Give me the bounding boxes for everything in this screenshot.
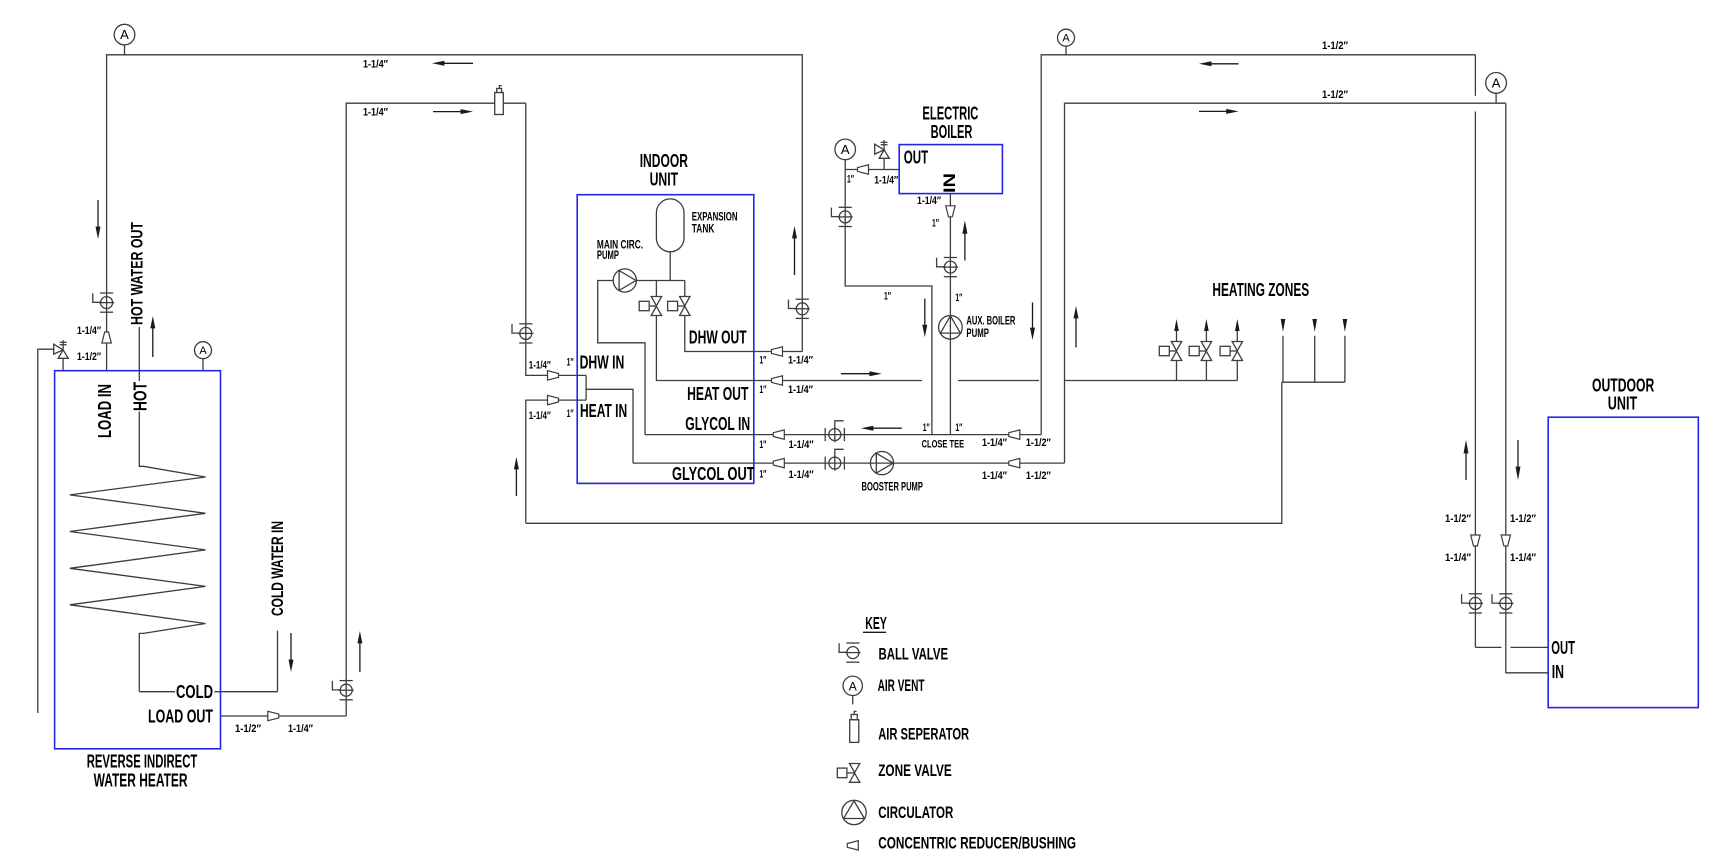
svg-text:HOT WATER OUT: HOT WATER OUT bbox=[128, 222, 147, 325]
svg-text:LOAD OUT: LOAD OUT bbox=[148, 706, 213, 726]
wire jog between DHW IN and HEAT IN bbox=[585, 375, 587, 400]
wire load-out riser and air-separator header bbox=[346, 103, 526, 716]
svg-text:1-1/2″: 1-1/2″ bbox=[1445, 513, 1472, 525]
wire boiler OUT drop to close tee bbox=[845, 160, 932, 435]
svg-text:DHW OUT: DHW OUT bbox=[689, 328, 747, 348]
flow arrow up zone 2 supply bbox=[1204, 319, 1209, 331]
wire zones return manifold bbox=[1282, 381, 1345, 383]
svg-text:1-1/2″: 1-1/2″ bbox=[1510, 513, 1537, 525]
flow arrow left on upper right header bbox=[1199, 61, 1239, 66]
reverse indirect water heater tank (blue box) bbox=[55, 371, 221, 749]
wire outdoor return drop bbox=[1506, 103, 1548, 673]
flow arrow right on air-separator header bbox=[433, 109, 473, 114]
flow arrow up zone 3 supply bbox=[1235, 319, 1240, 331]
wire outdoor OUT connection right segment bbox=[1511, 646, 1549, 648]
svg-text:OUTDOOR: OUTDOOR bbox=[1592, 375, 1654, 395]
svg-text:1-1/4″: 1-1/4″ bbox=[789, 439, 815, 451]
zone valve ZV1 (indoor left) bbox=[639, 297, 661, 316]
reducer on DHW IN bbox=[548, 371, 559, 380]
flow arrow right on HEAT OUT bbox=[841, 371, 882, 376]
reducer on GLYCOL IN right bbox=[1009, 430, 1020, 439]
wire relief valve drain bbox=[38, 349, 54, 713]
wire glycol-out riser and lower right header bbox=[1065, 103, 1506, 463]
svg-text:HOT: HOT bbox=[130, 382, 150, 411]
wire outdoor OUT connection left segment bbox=[1475, 646, 1501, 648]
svg-text:1-1/4″: 1-1/4″ bbox=[529, 410, 552, 422]
svg-text:1″: 1″ bbox=[955, 292, 962, 304]
svg-text:ELECTRIC: ELECTRIC bbox=[922, 103, 978, 123]
flow arrow down on cold water in bbox=[289, 633, 294, 672]
svg-text:PUMP: PUMP bbox=[966, 326, 989, 340]
key symbol air separator bbox=[850, 711, 859, 742]
wire HEAT OUT from left zone valve bbox=[656, 316, 922, 381]
svg-text:COLD: COLD bbox=[176, 682, 213, 702]
svg-text:1-1/4″: 1-1/4″ bbox=[874, 174, 899, 186]
svg-text:HEAT IN: HEAT IN bbox=[580, 401, 627, 421]
wire hot water out stub above tank bbox=[138, 327, 140, 381]
wire cold water in drop bbox=[277, 631, 279, 692]
zone valve ZV3 (heating zone 1) bbox=[1159, 342, 1181, 361]
key symbol concentric reducer bbox=[847, 841, 858, 850]
wire zone 2 return riser bbox=[1314, 336, 1316, 383]
flow arrow down zone 3 return bbox=[1343, 319, 1348, 332]
reducer on HEAT OUT bbox=[772, 376, 783, 385]
svg-text:TANK: TANK bbox=[692, 224, 715, 236]
KEY underline bbox=[863, 631, 886, 633]
purge valve on boiler OUT bbox=[875, 140, 890, 158]
wire zones return main bbox=[526, 382, 1282, 523]
reducer on HEAT IN bbox=[548, 395, 559, 404]
wire zone 3 supply riser bbox=[1236, 361, 1238, 381]
zone valve ZV5 (heating zone 3) bbox=[1220, 342, 1242, 361]
svg-text:BOOSTER PUMP: BOOSTER PUMP bbox=[862, 482, 924, 494]
svg-text:PUMP: PUMP bbox=[597, 250, 619, 262]
svg-text:A: A bbox=[841, 142, 850, 157]
svg-text:A: A bbox=[199, 345, 207, 357]
svg-text:ZONE VALVE: ZONE VALVE bbox=[878, 762, 952, 780]
reducer on DHW OUT bbox=[772, 347, 783, 356]
flow arrow up on HEAT IN riser bbox=[514, 457, 519, 496]
svg-text:OUT: OUT bbox=[1551, 638, 1575, 658]
flow arrow down on glycol-in riser bbox=[1030, 303, 1035, 341]
wire HEAT OUT to zones supply manifold bbox=[1065, 380, 1237, 382]
svg-text:1-1/4″: 1-1/4″ bbox=[917, 195, 942, 207]
air vent A5 (outdoor header) bbox=[1486, 73, 1507, 104]
svg-text:HEAT OUT: HEAT OUT bbox=[687, 384, 748, 404]
wire HEAT OUT middle segment bbox=[958, 380, 1039, 382]
ball valve on DHW OUT riser bbox=[789, 299, 810, 318]
flow arrow up beside HOT WATER OUT bbox=[150, 316, 155, 357]
wire zone 1 supply riser bbox=[1176, 361, 1178, 381]
wire LOAD OUT bbox=[221, 715, 347, 717]
flow arrow up on load-out riser bbox=[357, 631, 362, 672]
reducer on LOAD IN 1-1/4 to 1-1/2 bbox=[102, 332, 111, 343]
svg-text:1-1/4″: 1-1/4″ bbox=[529, 360, 552, 372]
svg-text:1″: 1″ bbox=[884, 291, 891, 303]
KEY legend bbox=[837, 613, 1076, 852]
svg-text:1-1/4″: 1-1/4″ bbox=[788, 384, 814, 396]
wire zone 2 riser above valve bbox=[1205, 331, 1207, 342]
svg-text:HEATING ZONES: HEATING ZONES bbox=[1212, 280, 1309, 300]
svg-text:1-1/4″: 1-1/4″ bbox=[982, 437, 1008, 449]
svg-text:DHW IN: DHW IN bbox=[580, 352, 625, 372]
svg-text:1-1/2″: 1-1/2″ bbox=[1322, 89, 1349, 101]
wire relief valve stub to tank bbox=[62, 358, 64, 370]
svg-text:UNIT: UNIT bbox=[1608, 394, 1637, 414]
reducer on outdoor supply drop bbox=[1471, 535, 1480, 546]
svg-text:LOAD IN: LOAD IN bbox=[95, 384, 115, 438]
key symbol circulator bbox=[842, 800, 866, 824]
wire glycol-in riser and upper right header bbox=[1041, 55, 1475, 435]
zone valve ZV2 (indoor right) bbox=[668, 297, 690, 316]
svg-text:1-1/4″: 1-1/4″ bbox=[77, 325, 102, 337]
svg-text:1″: 1″ bbox=[932, 218, 939, 230]
reducer on GLYCOL OUT right bbox=[1009, 458, 1020, 467]
svg-text:UNIT: UNIT bbox=[650, 170, 679, 190]
air vent A2 (on tank) bbox=[195, 342, 212, 371]
ball valve on boiler OUT drop bbox=[831, 207, 852, 226]
wire right zone valve stub top bbox=[684, 281, 686, 297]
svg-text:CLOSE TEE: CLOSE TEE bbox=[922, 439, 965, 451]
air vent A1 (top left) bbox=[114, 24, 135, 55]
wire zone 3 riser above valve bbox=[1236, 331, 1238, 342]
flow arrow down on close tee branch bbox=[922, 299, 927, 338]
svg-text:BOILER: BOILER bbox=[931, 122, 973, 142]
svg-text:A: A bbox=[1062, 33, 1070, 45]
svg-text:A: A bbox=[1492, 76, 1501, 91]
svg-text:1″: 1″ bbox=[847, 173, 854, 185]
svg-text:COLD WATER IN: COLD WATER IN bbox=[268, 521, 287, 616]
svg-text:1-1/4″: 1-1/4″ bbox=[789, 469, 815, 481]
ball valve on GLYCOL IN bbox=[825, 421, 844, 442]
svg-text:OUT: OUT bbox=[904, 147, 928, 167]
reducer on GLYCOL OUT left bbox=[773, 458, 784, 467]
flow arrow down zone 2 return bbox=[1312, 319, 1317, 332]
wire pump discharge manifold bbox=[636, 280, 684, 282]
wire HEAT IN entry bbox=[526, 400, 586, 523]
electric boiler (blue box) bbox=[899, 145, 1002, 194]
air vent A4 (right header) bbox=[1058, 29, 1075, 55]
svg-text:1-1/4″: 1-1/4″ bbox=[1510, 552, 1537, 564]
expansion tank bbox=[656, 199, 684, 252]
relief valve on tank bbox=[54, 340, 69, 358]
svg-text:1-1/2″: 1-1/2″ bbox=[1026, 470, 1052, 482]
key symbol air vent bbox=[843, 676, 862, 704]
flow arrow left on top header bbox=[432, 61, 473, 66]
svg-text:1″: 1″ bbox=[759, 355, 766, 367]
svg-text:1-1/2″: 1-1/2″ bbox=[235, 723, 262, 735]
wire COLD line left segment bbox=[139, 691, 175, 693]
wire zone 1 riser above valve bbox=[1176, 331, 1178, 342]
ball valve on load-out riser bbox=[332, 681, 353, 700]
wire GLYCOL IN line bbox=[645, 434, 1041, 436]
air vent A3 (electric boiler) bbox=[835, 139, 856, 160]
wire zone 2 supply riser bbox=[1205, 361, 1207, 381]
wire hot supply header (tank LOAD IN up, across top, down to DHW OUT) bbox=[107, 55, 803, 371]
wire expansion tank stem bbox=[669, 252, 671, 281]
reducer on outdoor return drop bbox=[1501, 535, 1510, 546]
svg-text:EXPANSION: EXPANSION bbox=[692, 212, 738, 224]
svg-text:1″: 1″ bbox=[567, 357, 574, 369]
key symbol ball valve bbox=[839, 643, 860, 662]
booster pump bbox=[870, 452, 893, 475]
svg-text:CIRCULATOR: CIRCULATOR bbox=[878, 804, 953, 822]
wire boiler IN drop through aux pump bbox=[949, 194, 951, 435]
svg-text:GLYCOL IN: GLYCOL IN bbox=[685, 414, 750, 434]
ball valve on boiler IN bbox=[937, 258, 958, 277]
ball valve on GLYCOL OUT bbox=[825, 449, 844, 470]
flow arrow up on boiler IN bbox=[962, 220, 967, 260]
svg-text:INDOOR: INDOOR bbox=[640, 151, 688, 171]
svg-text:1-1/2″: 1-1/2″ bbox=[77, 351, 102, 363]
wire pump suction from glycol in bbox=[598, 281, 645, 435]
svg-text:GLYCOL OUT: GLYCOL OUT bbox=[672, 464, 755, 484]
flow arrow up on outdoor supply drop bbox=[1464, 440, 1469, 480]
flow arrow left on GLYCOL IN bbox=[861, 426, 902, 431]
svg-text:1-1/2″: 1-1/2″ bbox=[1026, 437, 1052, 449]
wire boiler OUT horizontal bbox=[845, 169, 899, 171]
reducer on boiler OUT bbox=[858, 165, 869, 174]
svg-text:1-1/4″: 1-1/4″ bbox=[1445, 552, 1472, 564]
wire COLD line right segment to cold water drop bbox=[215, 691, 278, 693]
svg-text:WATER HEATER: WATER HEATER bbox=[94, 771, 188, 791]
air separator on header bbox=[495, 86, 504, 115]
flow arrow up zone 1 supply bbox=[1174, 319, 1179, 331]
reducer on boiler IN bbox=[946, 206, 955, 217]
wire outdoor supply drop upper segment bbox=[1474, 55, 1476, 96]
svg-text:1-1/2″: 1-1/2″ bbox=[1322, 40, 1349, 52]
flow arrow down on outdoor return drop bbox=[1516, 440, 1521, 480]
flow arrow up on glycol-out riser bbox=[1074, 306, 1079, 348]
svg-text:CONCENTRIC REDUCER/BUSHING: CONCENTRIC REDUCER/BUSHING bbox=[878, 835, 1076, 853]
svg-text:AIR SEPERATOR: AIR SEPERATOR bbox=[878, 725, 969, 743]
svg-text:1″: 1″ bbox=[759, 384, 766, 396]
aux boiler pump bbox=[939, 316, 963, 340]
flow arrow down on LOAD IN bbox=[96, 200, 101, 239]
wire purge valve stub bbox=[883, 158, 885, 169]
svg-text:1″: 1″ bbox=[567, 408, 574, 420]
svg-text:1″: 1″ bbox=[759, 439, 766, 451]
wire left zone valve stub top bbox=[655, 281, 657, 297]
outdoor unit (blue box) bbox=[1548, 417, 1698, 707]
wire DHW IN drop and entry bbox=[526, 103, 586, 375]
ball valve on outdoor return drop bbox=[1492, 594, 1513, 613]
svg-text:1-1/4″: 1-1/4″ bbox=[363, 106, 389, 118]
key symbol zone valve bbox=[837, 764, 860, 783]
wire glycol-out branch from jog bbox=[586, 389, 633, 463]
svg-text:1″: 1″ bbox=[759, 469, 766, 481]
svg-text:BALL VALVE: BALL VALVE bbox=[879, 645, 949, 663]
indoor unit (blue box) bbox=[577, 195, 754, 484]
wire DHW OUT (from right zone valve out to riser) bbox=[685, 316, 803, 352]
svg-text:1″: 1″ bbox=[923, 422, 930, 434]
flow arrow up on DHW OUT riser bbox=[792, 226, 797, 275]
svg-text:1-1/4″: 1-1/4″ bbox=[288, 723, 314, 735]
reducer on GLYCOL IN left bbox=[773, 430, 784, 439]
svg-text:IN: IN bbox=[1552, 662, 1564, 682]
wire zone 3 return riser bbox=[1344, 336, 1346, 383]
svg-text:1-1/4″: 1-1/4″ bbox=[982, 470, 1008, 482]
flow arrow down zone 1 return bbox=[1281, 319, 1286, 332]
svg-text:A: A bbox=[120, 27, 129, 42]
svg-text:REVERSE INDIRECT: REVERSE INDIRECT bbox=[87, 752, 198, 772]
main circulator pump bbox=[613, 269, 636, 292]
reducer on LOAD OUT bbox=[268, 711, 279, 720]
svg-text:1-1/4″: 1-1/4″ bbox=[363, 59, 389, 71]
ball valve on outdoor supply drop bbox=[1462, 594, 1483, 613]
svg-text:KEY: KEY bbox=[865, 613, 887, 633]
flow arrow right on lower right header bbox=[1199, 109, 1239, 114]
wire zone 1 return riser bbox=[1282, 336, 1284, 383]
svg-text:1″: 1″ bbox=[955, 422, 962, 434]
svg-text:IN: IN bbox=[940, 173, 959, 193]
ball valve on DHW IN drop bbox=[512, 324, 533, 343]
svg-text:A: A bbox=[849, 679, 857, 693]
svg-text:AIR VENT: AIR VENT bbox=[878, 677, 925, 695]
svg-text:1-1/4″: 1-1/4″ bbox=[788, 355, 814, 367]
wire outdoor supply drop lower segment bbox=[1474, 112, 1476, 648]
ball valve on LOAD IN bbox=[93, 293, 114, 312]
wire GLYCOL OUT line bbox=[633, 462, 1065, 464]
heat exchanger coil in tank bbox=[70, 412, 206, 692]
zone valve ZV4 (heating zone 2) bbox=[1189, 342, 1211, 361]
